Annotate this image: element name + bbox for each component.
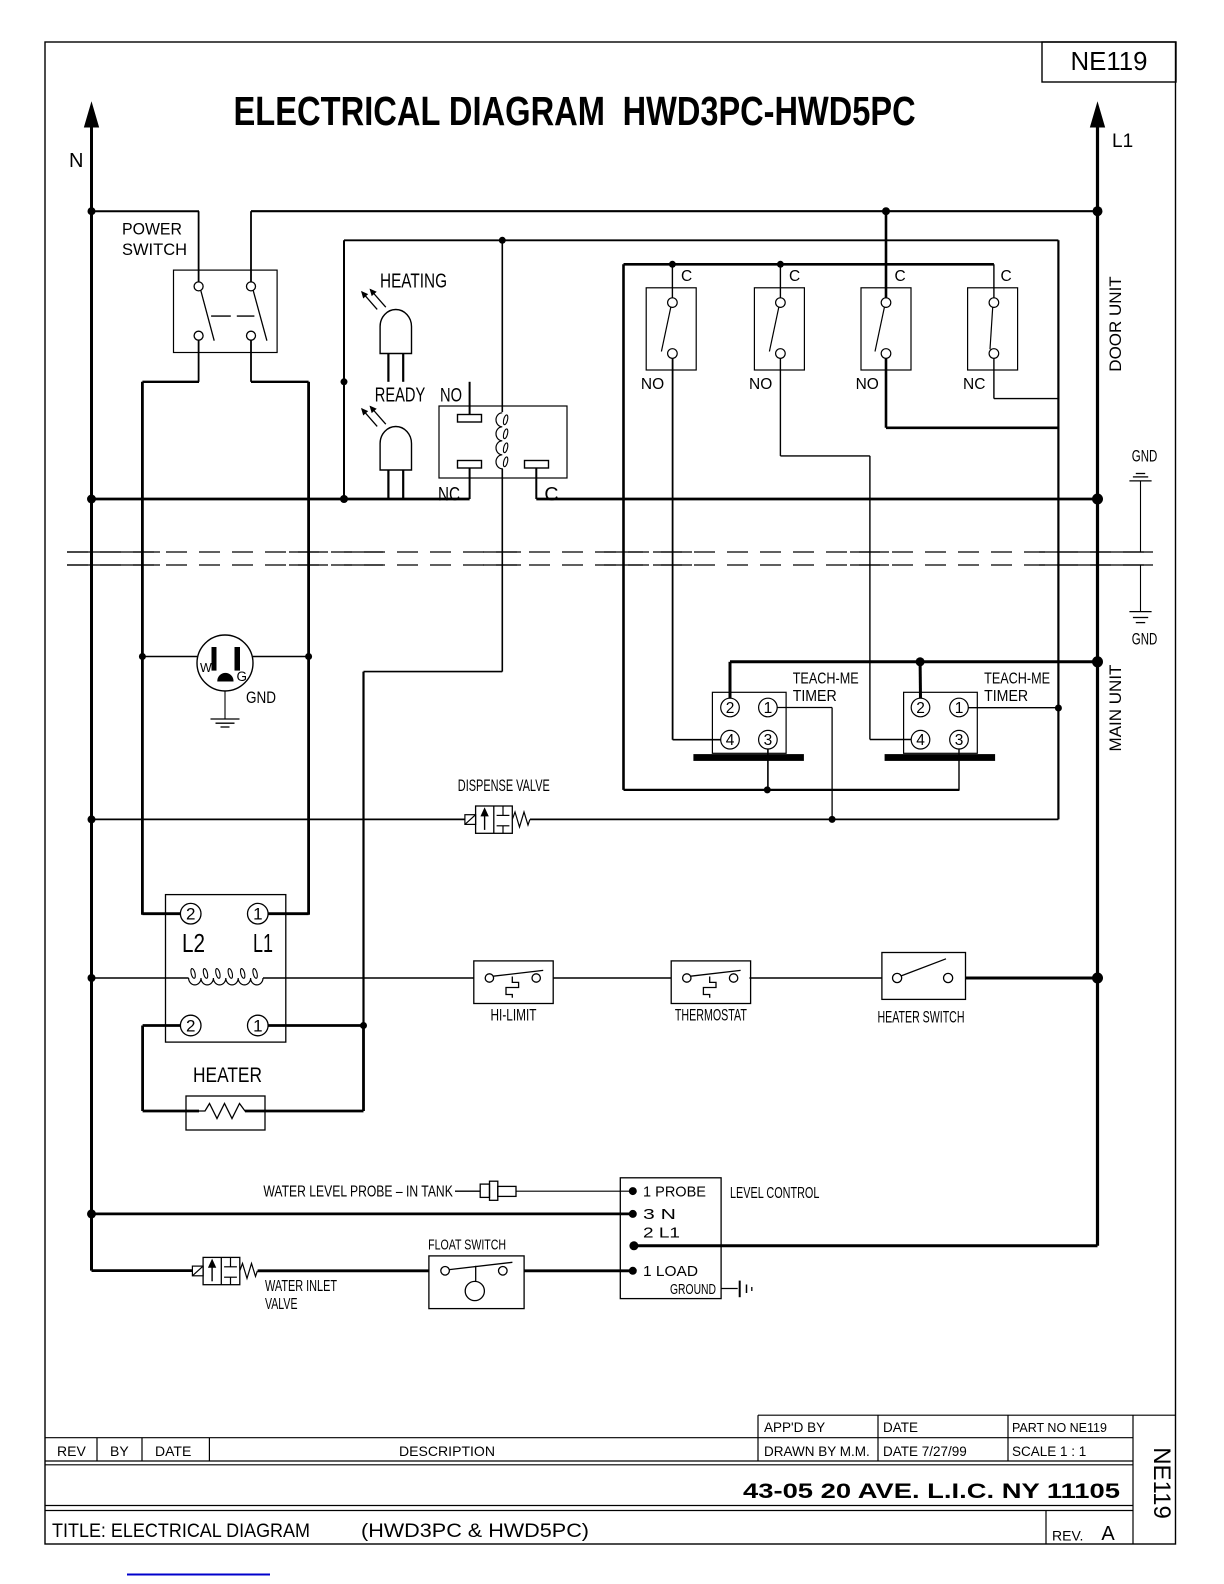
svg-text:(HWD3PC & HWD5PC): (HWD3PC & HWD5PC) [361,1521,589,1542]
svg-text:1 LOAD: 1 LOAD [643,1264,698,1280]
svg-text:DISPENSE VALVE: DISPENSE VALVE [458,776,550,795]
svg-text:NO: NO [641,376,664,393]
svg-text:2: 2 [186,905,195,924]
svg-text:1: 1 [955,700,964,717]
svg-text:TIMER: TIMER [793,688,837,705]
svg-text:ELECTRICAL DIAGRAM: ELECTRICAL DIAGRAM [234,88,606,134]
svg-text:BY: BY [110,1443,129,1459]
svg-text:DESCRIPTION: DESCRIPTION [399,1443,495,1459]
svg-text:43-05 20 AVE. L.I.C. NY 1: 43-05 20 AVE. L.I.C. NY 11105 [743,1480,1120,1503]
svg-text:G: G [237,669,248,684]
svg-text:POWER: POWER [122,221,182,239]
svg-text:2 L1: 2 L1 [643,1226,680,1242]
svg-text:4: 4 [726,732,735,749]
svg-text:C: C [681,268,692,285]
svg-text:PART NO NE119: PART NO NE119 [1012,1421,1107,1435]
svg-text:W: W [200,661,212,675]
svg-text:APP'D BY: APP'D BY [764,1420,825,1435]
svg-text:SWITCH: SWITCH [122,241,187,259]
svg-text:L2: L2 [182,928,205,958]
svg-text:HEATER: HEATER [193,1064,262,1087]
svg-text:GND: GND [246,688,276,707]
svg-text:GROUND: GROUND [670,1282,716,1298]
svg-text:REV: REV [57,1443,86,1459]
svg-text:NE119: NE119 [1148,1447,1175,1519]
svg-text:NC: NC [438,484,460,506]
svg-text:MAIN UNIT: MAIN UNIT [1106,665,1125,752]
svg-text:WATER INLET: WATER INLET [265,1278,337,1295]
svg-text:3 N: 3 N [643,1207,676,1223]
svg-text:NE119: NE119 [1071,46,1148,76]
svg-text:L1: L1 [1112,131,1133,152]
svg-text:HI-LIMIT: HI-LIMIT [491,1006,537,1025]
svg-text:N: N [69,150,83,172]
svg-text:1: 1 [764,700,773,717]
svg-text:C: C [544,484,558,506]
svg-text:REV.: REV. [1052,1528,1083,1544]
svg-text:WATER LEVEL PROBE – IN TA: WATER LEVEL PROBE – IN TANK [263,1184,453,1201]
svg-text:THERMOSTAT: THERMOSTAT [675,1006,747,1025]
svg-text:C: C [789,268,800,285]
svg-text:HEATER SWITCH: HEATER SWITCH [878,1008,965,1027]
svg-text:VALVE: VALVE [265,1296,298,1313]
svg-text:2: 2 [186,1017,195,1036]
svg-text:TEACH-ME: TEACH-ME [984,670,1050,687]
svg-text:1: 1 [253,905,262,924]
svg-text:DOOR UNIT: DOOR UNIT [1106,276,1125,371]
svg-text:DATE: DATE [883,1420,918,1435]
svg-text:DRAWN BY M.M.: DRAWN BY M.M. [764,1444,870,1459]
svg-text:C: C [895,268,906,285]
svg-text:3: 3 [955,732,964,749]
svg-text:2: 2 [916,700,925,717]
svg-text:NC: NC [963,376,985,393]
svg-text:C: C [1001,268,1012,285]
svg-text:TIMER: TIMER [984,688,1028,705]
svg-text:GND: GND [1132,631,1158,649]
svg-text:1 PROBE: 1 PROBE [643,1184,706,1200]
svg-text:HWD3PC-HWD5PC: HWD3PC-HWD5PC [623,88,916,134]
svg-text:GND: GND [1132,448,1158,466]
svg-text:A: A [1101,1523,1115,1545]
svg-text:1: 1 [253,1017,262,1036]
svg-text:TITLE: ELECTRICAL DIAGRAM: TITLE: ELECTRICAL DIAGRAM [52,1521,310,1542]
svg-text:HEATING: HEATING [380,271,447,293]
svg-text:LEVEL CONTROL: LEVEL CONTROL [730,1185,820,1202]
svg-text:NO: NO [856,376,879,393]
svg-text:NO: NO [749,376,772,393]
svg-text:L1: L1 [253,928,273,958]
svg-text:2: 2 [726,700,735,717]
svg-text:NO: NO [440,385,462,407]
svg-text:DATE 7/27/99: DATE 7/27/99 [883,1444,967,1459]
svg-text:4: 4 [916,732,925,749]
svg-text:READY: READY [375,385,426,407]
svg-text:DATE: DATE [155,1443,191,1459]
svg-text:SCALE 1 : 1: SCALE 1 : 1 [1012,1444,1086,1459]
svg-text:FLOAT SWITCH: FLOAT SWITCH [428,1237,506,1254]
svg-text:TEACH-ME: TEACH-ME [793,670,859,687]
svg-text:3: 3 [764,732,773,749]
